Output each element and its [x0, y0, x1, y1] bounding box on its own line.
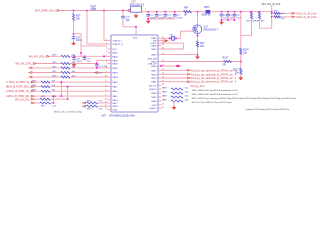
svg-text:PA17: PA17 — [113, 102, 119, 105]
node c8 top — [73, 56, 75, 58]
ground C8 — [73, 63, 75, 65]
wire xtal in2 — [162, 40, 165, 42]
port arrow usb — [177, 65, 182, 68]
wire R9 to ground — [197, 47, 199, 55]
wire bl2 — [98, 105, 108, 107]
svg-text:R6?: R6? — [41, 105, 46, 107]
pin stub U6 right PA27 — [158, 96, 162, 98]
resistor swd2 — [171, 96, 183, 98]
capacitor C6 — [72, 36, 76, 38]
resistor R16 — [274, 16, 281, 18]
node pullup1 — [251, 11, 253, 13]
wire ag2 — [35, 102, 40, 104]
node rail-divider — [240, 11, 242, 13]
pin stub U6 right PA25 — [158, 37, 162, 39]
wire rail to Q1 — [197, 12, 199, 25]
svg-text:PA07: PA07 — [113, 67, 119, 70]
port arrow uart1 — [188, 69, 191, 71]
wire 3v3 flag — [271, 6, 273, 12]
pin stub U6 right XIN — [158, 40, 162, 42]
svg-text:100nF: 100nF — [76, 61, 83, 63]
pin dot Q1 gate — [192, 30, 195, 32]
svg-text:600R 2A: 600R 2A — [202, 14, 212, 17]
wire cap1 bottom — [147, 16, 149, 19]
svg-text:USB_DM: USB_DM — [147, 59, 156, 61]
pin stub U6 left PA16 — [108, 99, 112, 101]
pin stub U6 right SWDIO — [158, 88, 162, 90]
wire ag2b — [51, 102, 54, 104]
svg-text:R6?: R6? — [163, 92, 168, 94]
svg-text:4.7k: 4.7k — [99, 109, 104, 111]
pin stub U6 left GND — [108, 108, 112, 110]
svg-text:DMG3415U-7: DMG3415U-7 — [204, 28, 219, 31]
svg-text:PA17: PA17 — [151, 69, 157, 72]
svg-text:R6?: R6? — [163, 88, 168, 90]
wire C6 to ground — [73, 38, 75, 41]
svg-text:PA23: PA23 — [151, 48, 157, 51]
pin stub U6 right PA28 — [158, 92, 162, 94]
capacitor C21 — [226, 13, 230, 15]
pin stub U6 right PA19 — [158, 61, 162, 63]
ground bank2 — [221, 20, 223, 22]
node xtal right — [176, 38, 178, 40]
wire divider bottom — [240, 75, 242, 77]
wire pa05 loop — [97, 61, 108, 65]
svg-text:PA27: PA27 — [151, 96, 157, 99]
svg-text:A: A — [235, 81, 237, 84]
pin stub U6 right PA22 — [158, 54, 162, 56]
node bank2 gnd — [221, 19, 223, 21]
svg-text:29: 29 — [162, 44, 164, 46]
wire cap4 bottom — [174, 16, 176, 19]
node tap row1 — [271, 13, 273, 15]
wire cap bank2 bottom bus — [222, 19, 235, 21]
wire cap4 top — [174, 12, 176, 15]
svg-text:SWD_SWDio EN: SamD21db bootloa: SWD_SWDio EN: SamD21db bootloader v2.18 — [192, 89, 239, 92]
node vertA bot — [61, 95, 63, 97]
svg-text:PA09: PA09 — [113, 76, 119, 79]
wire uart3 — [162, 77, 188, 79]
wire ag1 — [35, 98, 40, 100]
svg-text:WCA_IN_JD_LVL: WCA_IN_JD_LVL — [297, 16, 317, 19]
pin stub U6 left PA08 — [108, 72, 112, 74]
wire cap3 top — [164, 12, 166, 15]
wire cap1 top — [147, 12, 149, 15]
row WS_RX_DTN — [29, 67, 32, 69]
svg-text:WS_RX_DTN_/: WS_RX_DTN_/ — [15, 63, 33, 66]
svg-text:Cmday GPIO=2mday GPIO=2mdg GPI: Cmday GPIO=2mday GPIO=2mdg GPIO=2m — [245, 109, 289, 111]
resistor R8 — [184, 11, 192, 13]
svg-text:SWCLK: SWCLK — [149, 85, 157, 87]
wire bank2 cap3 top — [234, 12, 236, 15]
svg-text:C? 1.0uF: C? 1.0uF — [99, 66, 108, 68]
svg-text:R6?: R6? — [87, 109, 92, 111]
wire divider top — [240, 12, 242, 48]
wire top-left rail — [61, 10, 132, 12]
svg-text:R14? 4k7: R14? 4k7 — [255, 21, 265, 23]
capacitor C8 — [72, 57, 76, 59]
svg-text:PB23: PB23 — [151, 74, 157, 76]
crystal Y1 — [170, 36, 172, 40]
svg-text:U6?: U6? — [101, 114, 106, 118]
pin stub U6 right PA24 — [158, 45, 162, 47]
wire C7 to VDD pin — [123, 18, 136, 35]
svg-text:R6?: R6? — [163, 96, 168, 98]
svg-text:R8?: R8? — [184, 7, 189, 10]
svg-text:7: 7 — [106, 62, 107, 64]
node bank1 gnd — [147, 18, 149, 20]
pin stub U6 left XTAL32_I — [108, 39, 112, 41]
svg-text:WCA_B_PWR_SNS_/: WCA_B_PWR_SNS_/ — [6, 86, 31, 89]
svg-text:SWD_SWCLK po 4 memory GPIO=23d: SWD_SWCLK po 4 memory GPIO=23dg GPIO=23d… — [192, 97, 298, 100]
resistor R11 — [240, 68, 242, 75]
svg-text:C1?: C1? — [176, 15, 181, 17]
node R9 bottom — [197, 54, 199, 56]
svg-text:13: 13 — [162, 107, 164, 109]
svg-text:C2?: C2? — [236, 15, 241, 17]
port arrow BAT_PWR_ADJ — [57, 10, 60, 12]
pin stub U6 right PB22 — [158, 77, 162, 79]
wire divider mid — [240, 55, 242, 69]
svg-text:100nF: 100nF — [176, 18, 183, 20]
wire ag1b — [51, 98, 68, 100]
node vertC bot — [53, 102, 55, 104]
svg-text:10k: 10k — [76, 18, 81, 21]
wire to C7 — [122, 11, 124, 17]
wire cap bank1 bottom bus — [148, 18, 175, 20]
pin stub U6 left PA06 — [108, 63, 112, 65]
svg-text:C1?: C1? — [167, 15, 172, 17]
ground bottom-right — [173, 106, 175, 108]
node pullup2 — [259, 11, 261, 13]
svg-text:10k: 10k — [243, 52, 248, 55]
wire bank2 cap1 bottom — [221, 16, 223, 20]
port arrow uart4 — [188, 81, 191, 83]
regulator U5 body — [131, 6, 142, 12]
pin stub U6 right PA17 — [158, 69, 162, 71]
svg-text:4k7: 4k7 — [282, 18, 286, 20]
node cap bank1 4 — [174, 11, 176, 13]
capacitor C9 — [83, 57, 87, 59]
node usb2 — [176, 65, 178, 67]
node Q1 drain — [197, 11, 199, 13]
resistor R12 — [224, 60, 232, 62]
wire bank2 cap1 top — [221, 12, 223, 15]
wire vertA — [60, 82, 62, 96]
wire uart2 — [162, 73, 188, 75]
node vertB bot — [67, 98, 69, 100]
svg-text:PA31: PA31 — [151, 81, 157, 84]
pin stub U6 left XTAL32_O — [108, 43, 112, 45]
resistor R5 — [72, 14, 74, 21]
svg-text:GND: GND — [152, 105, 157, 107]
svg-text:VDD: VDD — [133, 37, 138, 39]
svg-text:Cmd_ja_dd A: Cmd_ja_dd A — [190, 85, 205, 88]
capacitor C16 — [95, 63, 98, 65]
svg-text:BAT_PWR_ADJ_/: BAT_PWR_ADJ_/ — [35, 8, 56, 12]
pin stub U6 left PA07 — [108, 67, 112, 69]
capacitor C20 — [220, 13, 224, 15]
svg-text:4: 4 — [106, 51, 107, 53]
node Q1 source — [197, 35, 199, 37]
ground G1 — [73, 41, 75, 43]
svg-text:PA14: PA14 — [113, 90, 119, 93]
wire pullup2 down — [260, 19, 272, 28]
port arrow bl2 — [83, 105, 86, 107]
svg-text:C1?: C1? — [158, 15, 163, 17]
svg-text:5: 5 — [145, 9, 147, 11]
capacitor C11 — [155, 13, 159, 15]
svg-text:GNDIO: GNDIO — [149, 108, 156, 110]
wire c16 bot — [96, 66, 98, 68]
svg-text:10k: 10k — [200, 45, 205, 48]
capacitor C10 — [146, 13, 150, 15]
node vertC top — [53, 95, 55, 97]
resistor R9 — [196, 41, 198, 47]
pin stub U6 right PA30 — [158, 100, 162, 102]
svg-text:0R: 0R — [184, 13, 187, 16]
node cap bank1 3 — [165, 11, 167, 13]
pin stub U6 right GNDIO — [158, 107, 162, 109]
wire uart1 — [162, 69, 188, 71]
svg-text:WCA_B_PWR_AF_/: WCA_B_PWR_AF_/ — [8, 90, 31, 93]
port arrow level2 — [292, 16, 295, 18]
resistor R21 — [40, 102, 51, 104]
capacitor C12 — [164, 13, 168, 15]
svg-text:100nF: 100nF — [76, 40, 83, 42]
node vertB top — [67, 86, 69, 88]
ground Q1 — [197, 55, 199, 57]
wire cap2 bottom — [156, 16, 158, 19]
ground bank1 — [147, 19, 149, 21]
svg-text:10k: 10k — [185, 92, 189, 94]
resistor R10 — [240, 48, 242, 55]
pin stub U6 left PA17 — [108, 102, 112, 104]
svg-text:WS_RX_ATN_/: WS_RX_ATN_/ — [29, 55, 46, 58]
svg-text:1uF: 1uF — [87, 61, 91, 63]
wire level row1 — [272, 12, 292, 14]
svg-text:SCLK=21.04; GND=21.2mp GPIO=2: SCLK=21.04; GND=21.2mp GPIO=2 pins — [192, 102, 233, 104]
wire long net — [162, 61, 241, 63]
wire uart4 — [162, 81, 188, 83]
svg-text:PA11: PA11 — [113, 86, 119, 89]
svg-text:4.7k: 4.7k — [52, 105, 57, 107]
svg-text:WCA_B_PWR_IN_/: WCA_B_PWR_IN_/ — [9, 81, 31, 84]
resistor swd1 — [171, 92, 183, 94]
capacitor C22 — [233, 13, 237, 15]
svg-text:C1?: C1? — [150, 15, 155, 17]
node J2 — [86, 10, 88, 12]
node row1 end — [103, 56, 105, 58]
resistor R14 — [258, 13, 260, 20]
wire R5 to C6 — [73, 21, 75, 37]
svg-text:3: 3 — [106, 48, 107, 50]
pin stub U6 left PA02 — [108, 52, 112, 54]
wire xtal-in run — [104, 11, 108, 41]
node J3 — [103, 10, 105, 12]
node cap bank2 2 top — [227, 11, 229, 13]
wire to gnd bottom — [173, 101, 175, 106]
svg-text:SWD_SWDio EN: SamD21db bootloa: SWD_SWDio EN: SamD21db bootloader v2.18 — [192, 93, 239, 96]
pin stub U6 right PB23 — [158, 73, 162, 75]
pin stub U6 left PA10 — [108, 81, 112, 83]
svg-text:A: A — [235, 77, 237, 80]
svg-text:18: 18 — [105, 99, 107, 101]
node 3v3 tap — [271, 11, 273, 13]
wire xtal row — [162, 37, 170, 39]
wire pa22 long — [162, 54, 198, 56]
svg-text:PA18: PA18 — [151, 65, 157, 68]
pin stub U6 left PA05 — [108, 60, 112, 62]
pin stub U6 right PA23 — [158, 48, 162, 50]
port arrow osc1 — [165, 39, 169, 42]
svg-text:WS21_C/D = 3.3V Microchip: WS21_C/D = 3.3V Microchip — [54, 110, 83, 113]
svg-text:PA02: PA02 — [113, 52, 119, 55]
node cap bank2 1 top — [221, 11, 223, 13]
svg-text:26: 26 — [162, 60, 164, 62]
wire Q1 source — [197, 34, 199, 41]
svg-text:XTAL32_I: XTAL32_I — [113, 39, 123, 42]
node J4 — [122, 10, 124, 12]
svg-text:Cmd_ja_dd_uartmode_jd_GPIO4_se: Cmd_ja_dd_uartmode_jd_GPIO4_sel — [191, 77, 233, 80]
port arrow level1 — [292, 12, 295, 14]
wire gate net — [176, 31, 192, 38]
node cap bank2 3 top — [234, 11, 236, 13]
wire rst loop — [74, 34, 108, 46]
node J5 — [135, 26, 137, 28]
pin stub U6 right PA18 — [158, 65, 162, 67]
node r5 branch — [73, 33, 75, 35]
pin stub U6 right GND — [158, 104, 162, 106]
svg-text:20: 20 — [162, 84, 164, 86]
resistor R15 — [274, 12, 281, 14]
node divider mid — [240, 61, 242, 63]
svg-text:FB3?: FB3? — [204, 6, 210, 9]
svg-text:PA04: PA04 — [113, 55, 119, 58]
wire xtal-out run — [87, 11, 108, 44]
pin circle U5 in — [128, 9, 130, 11]
port arrow ag2 — [32, 102, 35, 104]
svg-text:PA16: PA16 — [113, 99, 119, 102]
wire bank2 cap2 top — [227, 12, 229, 15]
svg-text:1: 1 — [106, 39, 107, 41]
svg-text:600R: 600R — [91, 8, 97, 11]
wire pullup1 down — [241, 19, 252, 35]
ground U5 — [135, 14, 137, 16]
pin stub U6 right PA31 — [158, 81, 162, 83]
svg-text:WS_AG_EN_/: WS_AG_EN_/ — [15, 98, 31, 101]
pin stub U6 left PA14 — [108, 90, 112, 92]
ic U6 body — [111, 35, 158, 112]
node c16 row — [96, 63, 98, 65]
pin stub U6 left PA15 — [108, 95, 112, 97]
resistor swd3 — [171, 100, 183, 102]
port WS_AG_EN — [32, 98, 35, 100]
svg-text:AP2112K-3.3: AP2112K-3.3 — [130, 4, 145, 7]
node tap row2 — [271, 16, 273, 18]
svg-text:A: A — [315, 16, 317, 19]
svg-text:4.7k: 4.7k — [99, 100, 104, 102]
svg-text:PA08: PA08 — [113, 72, 119, 75]
svg-text:XTAL32_O: XTAL32_O — [113, 43, 124, 46]
wire rst drop — [80, 46, 82, 56]
svg-text:USB_DP: USB_DP — [148, 63, 157, 65]
wire tap down — [271, 12, 273, 29]
pin stub U6 left PA11 — [108, 86, 112, 88]
wire level row2 — [272, 16, 292, 18]
svg-text:10k: 10k — [185, 100, 189, 102]
node xtal left — [169, 38, 171, 40]
resistor R23 — [87, 105, 98, 107]
ground divider — [240, 76, 242, 78]
capacitor C13 — [173, 13, 177, 15]
node vertA top — [61, 81, 63, 83]
node bank2 b2 — [227, 19, 229, 21]
svg-text:PA10: PA10 — [113, 81, 119, 84]
pin stub U6 left PA19 — [108, 105, 112, 107]
svg-text:PA15: PA15 — [113, 95, 119, 98]
node cap bank1 1 — [147, 11, 149, 13]
node rst — [80, 52, 82, 54]
svg-text:R6?: R6? — [274, 11, 279, 13]
ferrite FB3 — [206, 10, 211, 14]
svg-text:GND: GND — [113, 109, 118, 111]
node cap bank1 2 — [156, 11, 158, 13]
svg-text:PB22: PB22 — [151, 78, 157, 80]
wire bank2 cap2 bottom — [227, 16, 229, 20]
wire xtal loop — [162, 43, 184, 49]
pin stub U6 right SWCLK — [158, 84, 162, 86]
pin stub U6 left PA09 — [108, 76, 112, 78]
row sig5 — [29, 76, 32, 78]
svg-text:R12?: R12? — [223, 57, 229, 60]
svg-text:PA06: PA06 — [113, 63, 119, 66]
wire vertB — [67, 87, 69, 100]
wire cap2 top — [156, 12, 158, 15]
svg-text:Cmd_ja_dd_uartmode_jd_GPIO4_se: Cmd_ja_dd_uartmode_jd_GPIO4_sel — [191, 69, 233, 72]
svg-text:RST: RST — [113, 49, 118, 51]
pin stub U6 left RST — [108, 48, 112, 50]
port arrow uart2 — [188, 73, 191, 75]
resistor R22 — [87, 102, 98, 104]
svg-text:10k: 10k — [185, 96, 189, 98]
svg-text:1uF: 1uF — [126, 19, 131, 22]
svg-text:Cmd_ja_dd_uartmode_jd_GPIO4_se: Cmd_ja_dd_uartmode_jd_GPIO4_sel — [191, 81, 233, 84]
pin VDD top — [135, 31, 137, 36]
svg-text:PA19: PA19 — [113, 105, 119, 108]
svg-text:2: 2 — [106, 43, 107, 45]
wire 3v3 rail — [142, 11, 272, 13]
wire c8 gnd — [73, 59, 75, 62]
node bank2 b3 — [234, 19, 236, 21]
svg-text:PA24: PA24 — [151, 45, 157, 48]
svg-text:WS_DQ_B_3V3: WS_DQ_B_3V3 — [262, 2, 281, 6]
wire down to R5 — [73, 11, 75, 14]
svg-text:ATSAMD21G18A-MU: ATSAMD21G18A-MU — [109, 114, 135, 118]
port arrow uart3 — [188, 77, 191, 79]
svg-text:SWDIO: SWDIO — [149, 89, 157, 91]
svg-text:10k: 10k — [185, 88, 189, 90]
node c9 top — [84, 56, 86, 58]
svg-text:PA22: PA22 — [151, 54, 157, 57]
wire cap3 bottom — [164, 16, 166, 19]
node usb1 — [160, 65, 162, 67]
transistor Q1 — [193, 25, 202, 34]
node c16 bot — [96, 67, 98, 69]
svg-text:Cmd_ja_dd_uartmode_jd_GPIO4_se: Cmd_ja_dd_uartmode_jd_GPIO4_sel — [191, 73, 233, 76]
wire usb row — [162, 65, 178, 67]
wire bl1 — [98, 102, 108, 104]
